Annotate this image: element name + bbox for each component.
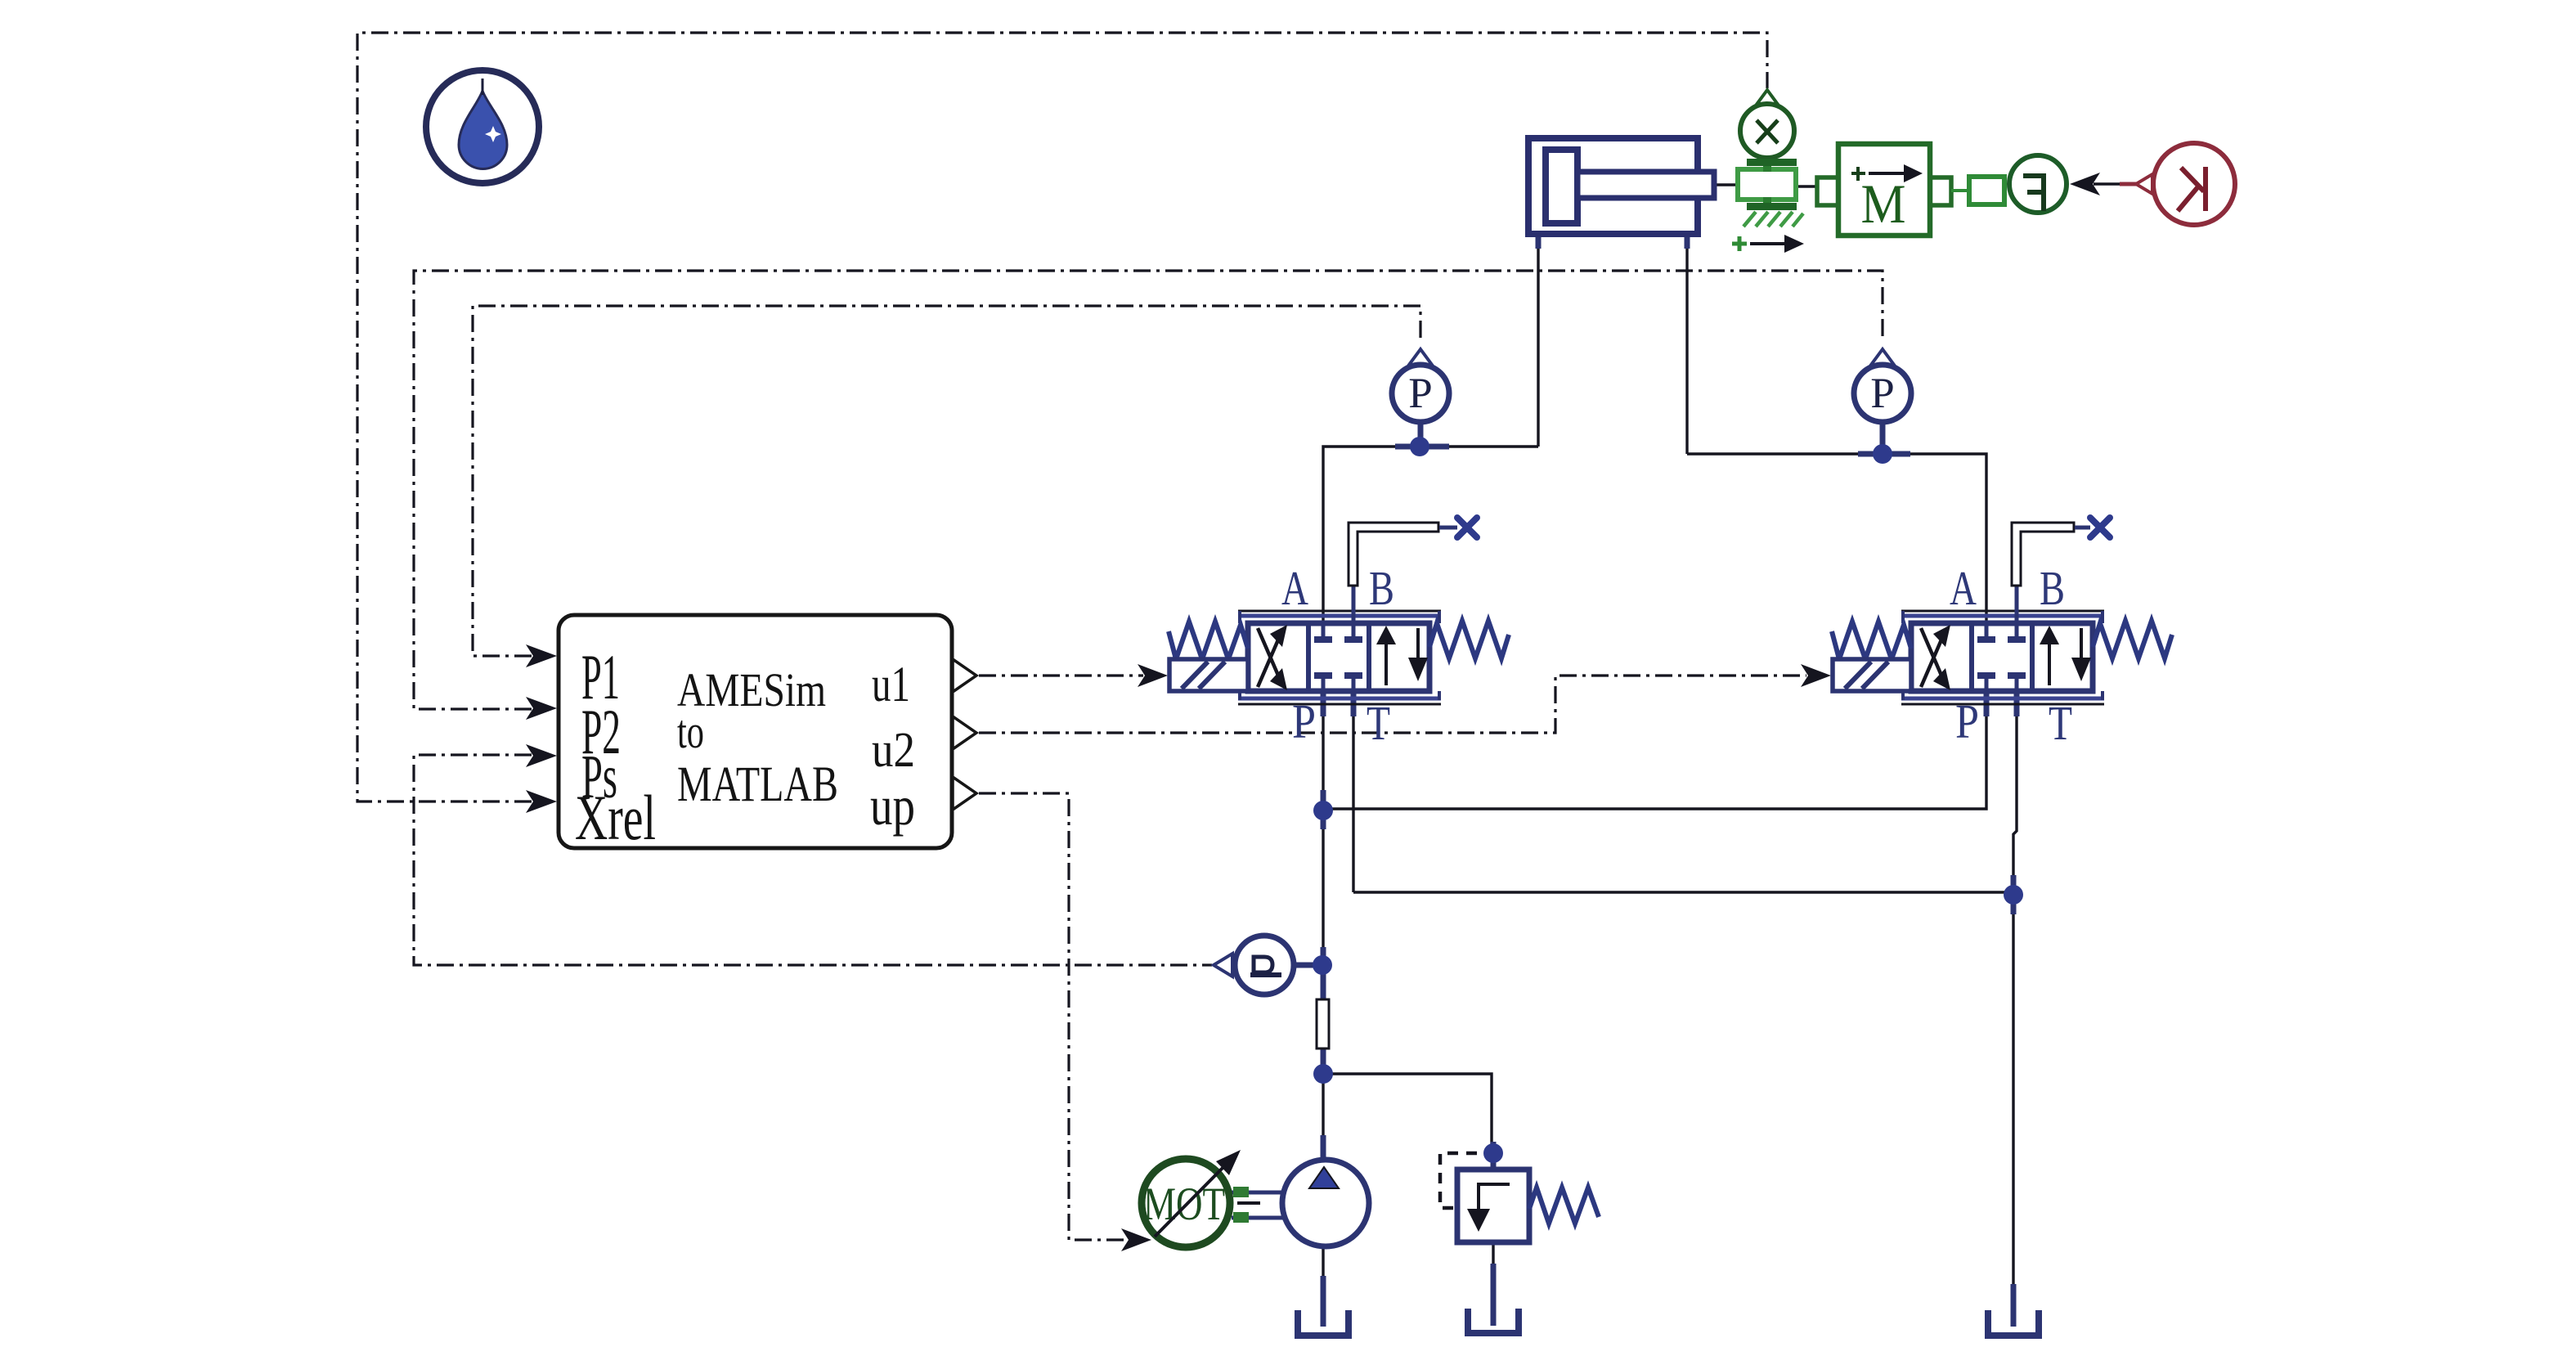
svg-text:MOT: MOT bbox=[1143, 1179, 1225, 1230]
tank (relief valve outlet) bbox=[1468, 1309, 1519, 1333]
wire: relief valve outlet to tank bbox=[1492, 1242, 1494, 1324]
junction J4 (tank return) bbox=[2004, 885, 2023, 905]
servo valve V2 bbox=[1832, 611, 2172, 704]
stub: tank return bottom bbox=[2011, 1284, 2017, 1327]
stub: relief valve bottom port bbox=[1491, 1264, 1497, 1326]
force sensor F bbox=[1969, 155, 2067, 213]
svg-text:P: P bbox=[1955, 694, 1979, 748]
stub: supply above sensor junction bbox=[1321, 947, 1326, 999]
position sensor X bbox=[1732, 90, 1804, 253]
wire: sensor base to mass link bbox=[1797, 185, 1818, 187]
stub: return junction node J4 bbox=[2011, 875, 2017, 914]
stub: valve V1 T port bbox=[1351, 692, 1357, 716]
arrowhead up at motor MOT bbox=[1121, 1228, 1151, 1251]
junction J1 (cylinder left / P1 sensor) bbox=[1410, 437, 1429, 456]
servo valve V1 bbox=[1169, 611, 1509, 704]
stub: cylinder left port bbox=[1536, 232, 1542, 249]
stub: pump outlet bbox=[1321, 1135, 1326, 1161]
hydraulic cylinder bbox=[1528, 138, 1714, 234]
plug X on valve V2 port B line bbox=[2090, 518, 2110, 537]
wire: pump inlet from tank bbox=[1322, 1246, 1324, 1325]
stub: sensor P2 to junction bbox=[1880, 420, 1886, 452]
stub: relief valve top port bbox=[1491, 1142, 1497, 1173]
output port up bbox=[953, 777, 976, 810]
output port u1 bbox=[953, 659, 976, 692]
svg-text:T: T bbox=[1367, 696, 1390, 750]
input arrowhead Ps bbox=[526, 744, 557, 767]
wire: K to F signal arrow bbox=[2070, 173, 2137, 195]
tank (return line) bbox=[1988, 1310, 2039, 1336]
wire: u2 signal (block output u2 to valve V2 solenoid) bbox=[979, 676, 1806, 733]
svg-text:B: B bbox=[1369, 561, 1394, 615]
svg-text:P: P bbox=[1408, 370, 1432, 417]
input arrowhead P1 bbox=[526, 644, 557, 667]
pressure sensor P2 bbox=[1854, 349, 1911, 422]
svg-text:B: B bbox=[2040, 561, 2065, 615]
AMESim to MATLAB interface block bbox=[559, 615, 976, 853]
electric motor MOT bbox=[1142, 1150, 1288, 1247]
stub: junction bar at node J2 bbox=[1858, 451, 1910, 457]
svg-text:u1: u1 bbox=[872, 658, 910, 712]
stub: supply junction node J3 bbox=[1321, 790, 1326, 829]
wire: tank return down to tank bbox=[2012, 892, 2014, 1325]
svg-text:Xrel: Xrel bbox=[575, 782, 656, 853]
wire: supply line valve V1 port P down to pump bbox=[1322, 695, 1324, 1161]
wire: cylinder rod to position sensor link bbox=[1713, 183, 1739, 186]
wire: Xrel signal (X sensor to block input Xrel) bbox=[357, 33, 1767, 801]
svg-text:T: T bbox=[2049, 696, 2072, 750]
relief valve bbox=[1440, 1153, 1599, 1242]
wire: Ps signal (supply pressure sensor to block input Ps) bbox=[414, 755, 1212, 965]
stub: supply below pipe element bbox=[1321, 1048, 1326, 1078]
wire: mass to force sensor link bbox=[1951, 189, 1971, 192]
pressure sensor P1 bbox=[1392, 349, 1449, 422]
svg-text:A: A bbox=[1281, 561, 1308, 615]
svg-text:A: A bbox=[1950, 561, 1977, 615]
tank (pump suction) bbox=[1298, 1310, 1349, 1336]
arrowhead u2 at valve V2 bbox=[1801, 664, 1831, 687]
svg-text:to: to bbox=[677, 705, 704, 758]
arrowhead u1 at valve V1 bbox=[1138, 664, 1168, 687]
wire: u1 signal (block output u1 to valve V1 solenoid) bbox=[979, 674, 1143, 676]
stub: pump inlet to tank bbox=[1321, 1276, 1326, 1327]
wire: P1 signal (pressure sensor P1 to block input P1) bbox=[473, 306, 1420, 656]
input arrowhead P2 bbox=[526, 697, 557, 720]
mass M bbox=[1817, 144, 1951, 236]
stub: valve V2 T port bbox=[2014, 692, 2020, 716]
stub: sensor P1 to junction bbox=[1418, 422, 1424, 445]
junction J2 (cylinder right / P2 sensor) bbox=[1873, 444, 1892, 464]
svg-text:up: up bbox=[870, 775, 915, 837]
junction J7 (relief valve pilot tap) bbox=[1483, 1143, 1503, 1163]
wire: cylinder left port down bbox=[1537, 237, 1539, 447]
valve V2 port B plugged pilot pipe bbox=[2012, 518, 2110, 625]
wire: up signal (block output up to motor MOT) bbox=[979, 793, 1124, 1240]
svg-text:P: P bbox=[1292, 694, 1316, 748]
wire: cylinder right port down bbox=[1685, 237, 1688, 454]
junction J6 (supply / relief branch) bbox=[1313, 1064, 1333, 1084]
svg-text:MATLAB: MATLAB bbox=[677, 757, 838, 812]
stub: valve V1 P port bbox=[1321, 692, 1326, 716]
wire: tank return line between valves bbox=[1353, 891, 2013, 893]
pipe element on supply line bbox=[1317, 999, 1329, 1048]
svg-text:u2: u2 bbox=[872, 723, 915, 778]
AMESim drop logo bbox=[426, 70, 539, 183]
stub: sensor Ps link bbox=[1295, 963, 1320, 968]
svg-text:P: P bbox=[1870, 370, 1894, 417]
stub: valve V2 P port bbox=[1984, 692, 1990, 716]
valve V1 port B plugged pilot pipe bbox=[1349, 518, 1477, 625]
junction J5 (supply / Ps sensor) bbox=[1313, 955, 1332, 975]
wire: cylinder left line to valve V1 port A bbox=[1323, 447, 1538, 625]
pressure sensor Ps (supply) bbox=[1214, 936, 1294, 995]
wire: valve V2 port T down bbox=[2013, 695, 2017, 892]
relief valve spring bbox=[1529, 1188, 1599, 1224]
output port u2 bbox=[953, 716, 976, 749]
hydraulic pump bbox=[1282, 1160, 1369, 1246]
svg-text:M: M bbox=[1861, 173, 1906, 235]
wire: P2 signal (pressure sensor P2 to block input P2) bbox=[414, 271, 1883, 709]
wire: cylinder right line to valve V2 port A bbox=[1687, 454, 1986, 625]
junction J3 (supply split to valve V2) bbox=[1313, 801, 1333, 820]
wire: valve V1 port T down bbox=[1352, 695, 1354, 892]
wire: supply branch to valve V2 port P bbox=[1323, 695, 1986, 809]
input arrowhead Xrel bbox=[526, 790, 557, 813]
plug X on valve V1 port B line bbox=[1457, 518, 1477, 537]
stub: cylinder right port bbox=[1685, 232, 1690, 249]
wire: branch to relief valve bbox=[1323, 1074, 1492, 1155]
stub: junction bar at node J1 bbox=[1395, 444, 1449, 450]
constant source K bbox=[2136, 143, 2235, 225]
